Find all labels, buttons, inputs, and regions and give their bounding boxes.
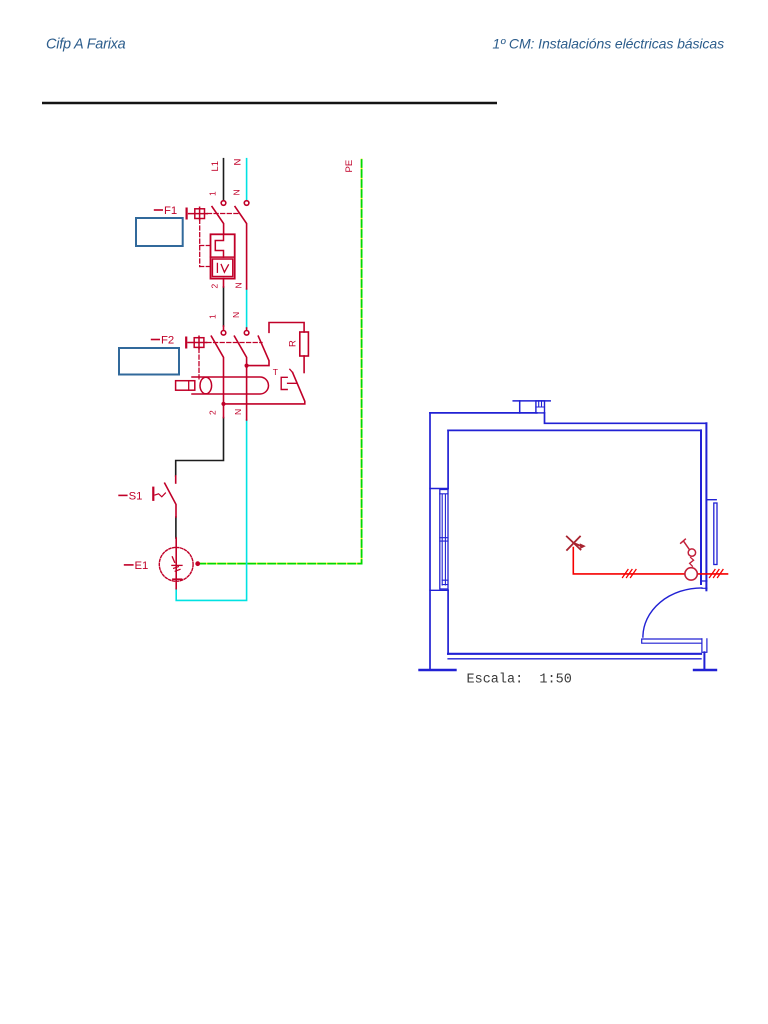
svg-text:Cifp A Farixa: Cifp A Farixa — [46, 36, 126, 52]
svg-text:PE: PE — [344, 160, 355, 173]
svg-text:F1: F1 — [164, 205, 177, 217]
svg-text:1: 1 — [208, 191, 218, 196]
svg-text:2: 2 — [208, 410, 218, 415]
svg-text:T: T — [273, 367, 278, 377]
svg-text:Escala: 1:50: Escala: 1:50 — [467, 673, 572, 688]
svg-text:N: N — [233, 409, 243, 415]
svg-text:N: N — [233, 159, 244, 166]
svg-text:1: 1 — [208, 314, 218, 319]
svg-text:2: 2 — [210, 284, 220, 289]
svg-text:R: R — [288, 340, 299, 347]
svg-text:1º CM: Instalacións eléctricas: 1º CM: Instalacións eléctricas básicas — [492, 35, 724, 51]
svg-text:F2: F2 — [161, 334, 174, 346]
svg-text:N: N — [234, 282, 244, 288]
svg-text:L1: L1 — [210, 161, 221, 172]
svg-text:N: N — [231, 312, 241, 318]
svg-text:N: N — [232, 189, 242, 195]
svg-text:S1: S1 — [129, 491, 143, 503]
svg-text:E1: E1 — [135, 560, 149, 572]
